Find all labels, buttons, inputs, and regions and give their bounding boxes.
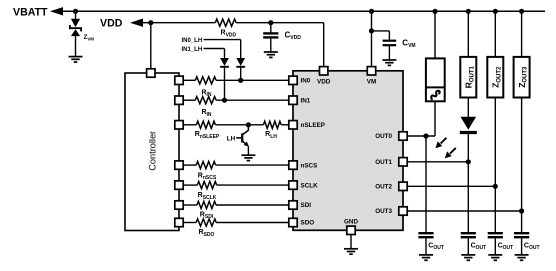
svg-text:RnSLEEP: RnSLEEP [195,131,220,140]
junction VBATT-load2 [493,9,498,14]
wire diode to IN1 [224,68,226,101]
svg-text:SCLK: SCLK [301,182,319,189]
IC pin OUT2 [399,182,407,190]
wire ZVM top [75,11,77,19]
wire VDD left [142,22,215,24]
svg-text:IN0_LH: IN0_LH [182,38,203,44]
svg-text:COUT: COUT [428,243,444,252]
resistor RnSLEEP [196,121,215,128]
junction VM-CVM [369,28,374,33]
capacitor COUT2 [488,232,503,234]
wire SDI left [183,204,197,206]
wire load1 top [467,11,469,57]
junction OUT1-COUT [466,159,471,164]
junction VDD-CVDD [268,20,273,25]
ground IC GND [344,248,358,250]
svg-text:COUT: COUT [524,243,540,252]
resistor RIN [195,97,216,104]
wire OUT3 [407,210,521,212]
junction IN0 [238,78,243,83]
ground CVDD [264,51,278,53]
IC pin SDI [289,201,297,209]
wire IN0 right [216,79,289,81]
wire ZVM bottom [75,36,77,56]
wire OUT0 [407,135,435,137]
load box Z_OUT2 [487,57,503,98]
capacitor COUT3 [514,232,529,234]
svg-text:OUT3: OUT3 [375,208,392,215]
wire nSCS right [216,164,289,166]
wire nSCS left [183,164,196,166]
wire load3 bottom [521,98,523,212]
junction VBATT-ZVM [73,9,78,14]
svg-text:RIN: RIN [201,109,211,118]
wire COUT3 drop [521,211,523,232]
IC pin VM [367,67,375,75]
svg-text:IN1: IN1 [301,97,311,104]
wire VM [371,11,373,67]
svg-text:RSCLK: RSCLK [198,192,217,201]
controller pin nSCS [175,161,183,169]
arrow VBATT [50,7,63,15]
wire COUT0 drop [425,136,427,232]
svg-text:Controller: Controller [147,131,157,171]
wire COUT1 drop [467,162,469,232]
diode IN1_LH [220,58,229,66]
svg-text:OUT0: OUT0 [375,133,392,140]
junction VBATT-load0 [432,9,437,14]
wire load1 bottom [467,134,469,162]
wire load2 top [494,11,496,57]
wire COUT2 gnd [494,238,496,254]
junction IN1 [222,98,227,103]
capacitor CVDD [263,32,278,34]
junction OUT0-COUT [423,133,428,138]
wire load1 mid [467,98,469,118]
IC pin SDO [289,218,297,226]
svg-text:CVDD: CVDD [285,30,302,41]
controller pin SDI [175,201,183,209]
svg-text:VDD: VDD [317,78,331,85]
svg-text:VDD: VDD [100,17,123,29]
ground COUT1 [461,254,475,256]
IC pin OUT0 [399,132,407,140]
svg-text:CVM: CVM [402,38,415,49]
svg-text:OUT1: OUT1 [375,159,392,166]
wire SDO right [216,222,289,224]
svg-text:SDI: SDI [301,202,312,209]
junction VDD-controller [148,20,153,25]
svg-text:LH: LH [227,135,236,142]
svg-text:RLH: RLH [265,131,277,140]
junction nSLEEP-LH [246,122,251,127]
wire CVM bottom [388,46,390,59]
controller pin VDD [147,69,155,77]
junction OUT3-COUT [519,208,524,213]
wire VBATT rail [62,10,545,12]
wire CVDD bottom [270,39,272,52]
svg-text:SDO: SDO [301,220,315,227]
junction OUT2-COUT [493,184,498,189]
controller pin nSLEEP [175,121,183,129]
wire VDD to controller [150,23,152,69]
wire load2 bottom [494,98,496,187]
ground COUT0 [419,254,433,256]
svg-text:RSDO: RSDO [199,229,215,238]
resistor RnSCS [196,162,215,169]
wire COUT2 drop [494,186,496,232]
svg-text:IN1_LH: IN1_LH [182,47,203,53]
diode IN0_LH [236,58,245,66]
IC pin OUT3 [399,207,407,215]
controller pin IN0 [175,76,183,84]
svg-text:COUT: COUT [498,243,514,252]
svg-text:COUT: COUT [471,243,487,252]
wire nSLEEP left [183,124,196,126]
svg-text:IN0: IN0 [301,78,311,85]
svg-text:VM: VM [367,78,376,85]
resistor RIN [195,77,216,84]
svg-text:VBATT: VBATT [13,7,48,19]
wire nSLEEP mid [215,124,263,126]
wire COUT0 gnd [425,238,427,254]
wire VDD mid [236,22,324,24]
wire CVDD top [270,23,272,33]
ground CVM [382,59,396,61]
wire IN1 right [216,99,289,101]
load box L0 [426,58,445,101]
junction VBATT-VM [369,9,374,14]
wire SDI right [216,204,289,206]
svg-text:nSCS: nSCS [301,162,318,169]
wire SDO left [183,222,196,224]
wire COUT1 gnd [467,238,469,254]
wire IN1_LH [204,48,225,50]
wire load0 top [434,11,436,58]
resistor RSCLK [197,182,216,189]
IC pin IN0 [289,76,297,84]
controller box [125,73,179,231]
junction VBATT-load3 [519,9,524,14]
TVS diode Z_VM [71,19,80,27]
wire COUT3 gnd [521,238,523,254]
svg-text:RVDD: RVDD [221,30,237,39]
IC pin OUT1 [399,158,407,166]
svg-text:OUT2: OUT2 [375,184,392,191]
LED arrows [441,138,447,144]
ground LH [241,154,255,156]
capacitor COUT1 [461,232,476,234]
wire VDD down to pin [323,23,325,67]
wire IN0 left [183,79,195,81]
wire LH collector [243,125,249,135]
IC pin IN1 [289,96,297,104]
controller pin IN1 [175,96,183,104]
load box Z_OUT3 [514,57,530,98]
wire CVM branch [372,30,390,32]
wire LH emitter [247,146,249,154]
wire OUT2 [407,185,495,187]
capacitor COUT0 [418,232,433,234]
svg-text:GND: GND [344,219,358,226]
wire OUT1 [407,161,468,163]
wire diode to IN0 [240,68,242,81]
transistor LH [241,133,243,142]
controller pin SDO [175,218,183,226]
resistor RSDI [197,201,216,208]
load box R_OUT1 [460,57,476,98]
controller pin SCLK [175,181,183,189]
wire nSLEEP right [281,124,289,126]
svg-text:RnSCS: RnSCS [198,172,217,181]
IC pin nSCS [289,161,297,169]
ground COUT3 [515,254,529,256]
wire load0 bottom [434,101,436,136]
LED D1 [461,117,477,130]
svg-text:nSLEEP: nSLEEP [301,122,326,129]
IC pin SCLK [289,181,297,189]
arrow VDD [130,19,143,27]
svg-text:ZVM: ZVM [84,34,95,42]
junction VBATT-load1 [466,9,471,14]
wire SCLK right [217,184,289,186]
wire IN1 left [183,99,195,101]
ground COUT2 [488,254,502,256]
IC pin VDD [320,67,328,75]
capacitor CVM [383,40,397,42]
IC pin nSLEEP [289,121,297,129]
IC U1 box [293,71,403,231]
svg-text:RSDI: RSDI [200,212,214,221]
resistor RVDD [215,19,236,26]
IC pin GND [347,226,355,234]
wire IN0_LH [204,39,241,41]
wire load3 top [521,11,523,57]
wire GND [350,235,352,249]
ground ZVM [69,56,83,58]
resistor RLH [263,121,281,128]
resistor RSDO [196,219,216,226]
wire SCLK left [183,184,197,186]
